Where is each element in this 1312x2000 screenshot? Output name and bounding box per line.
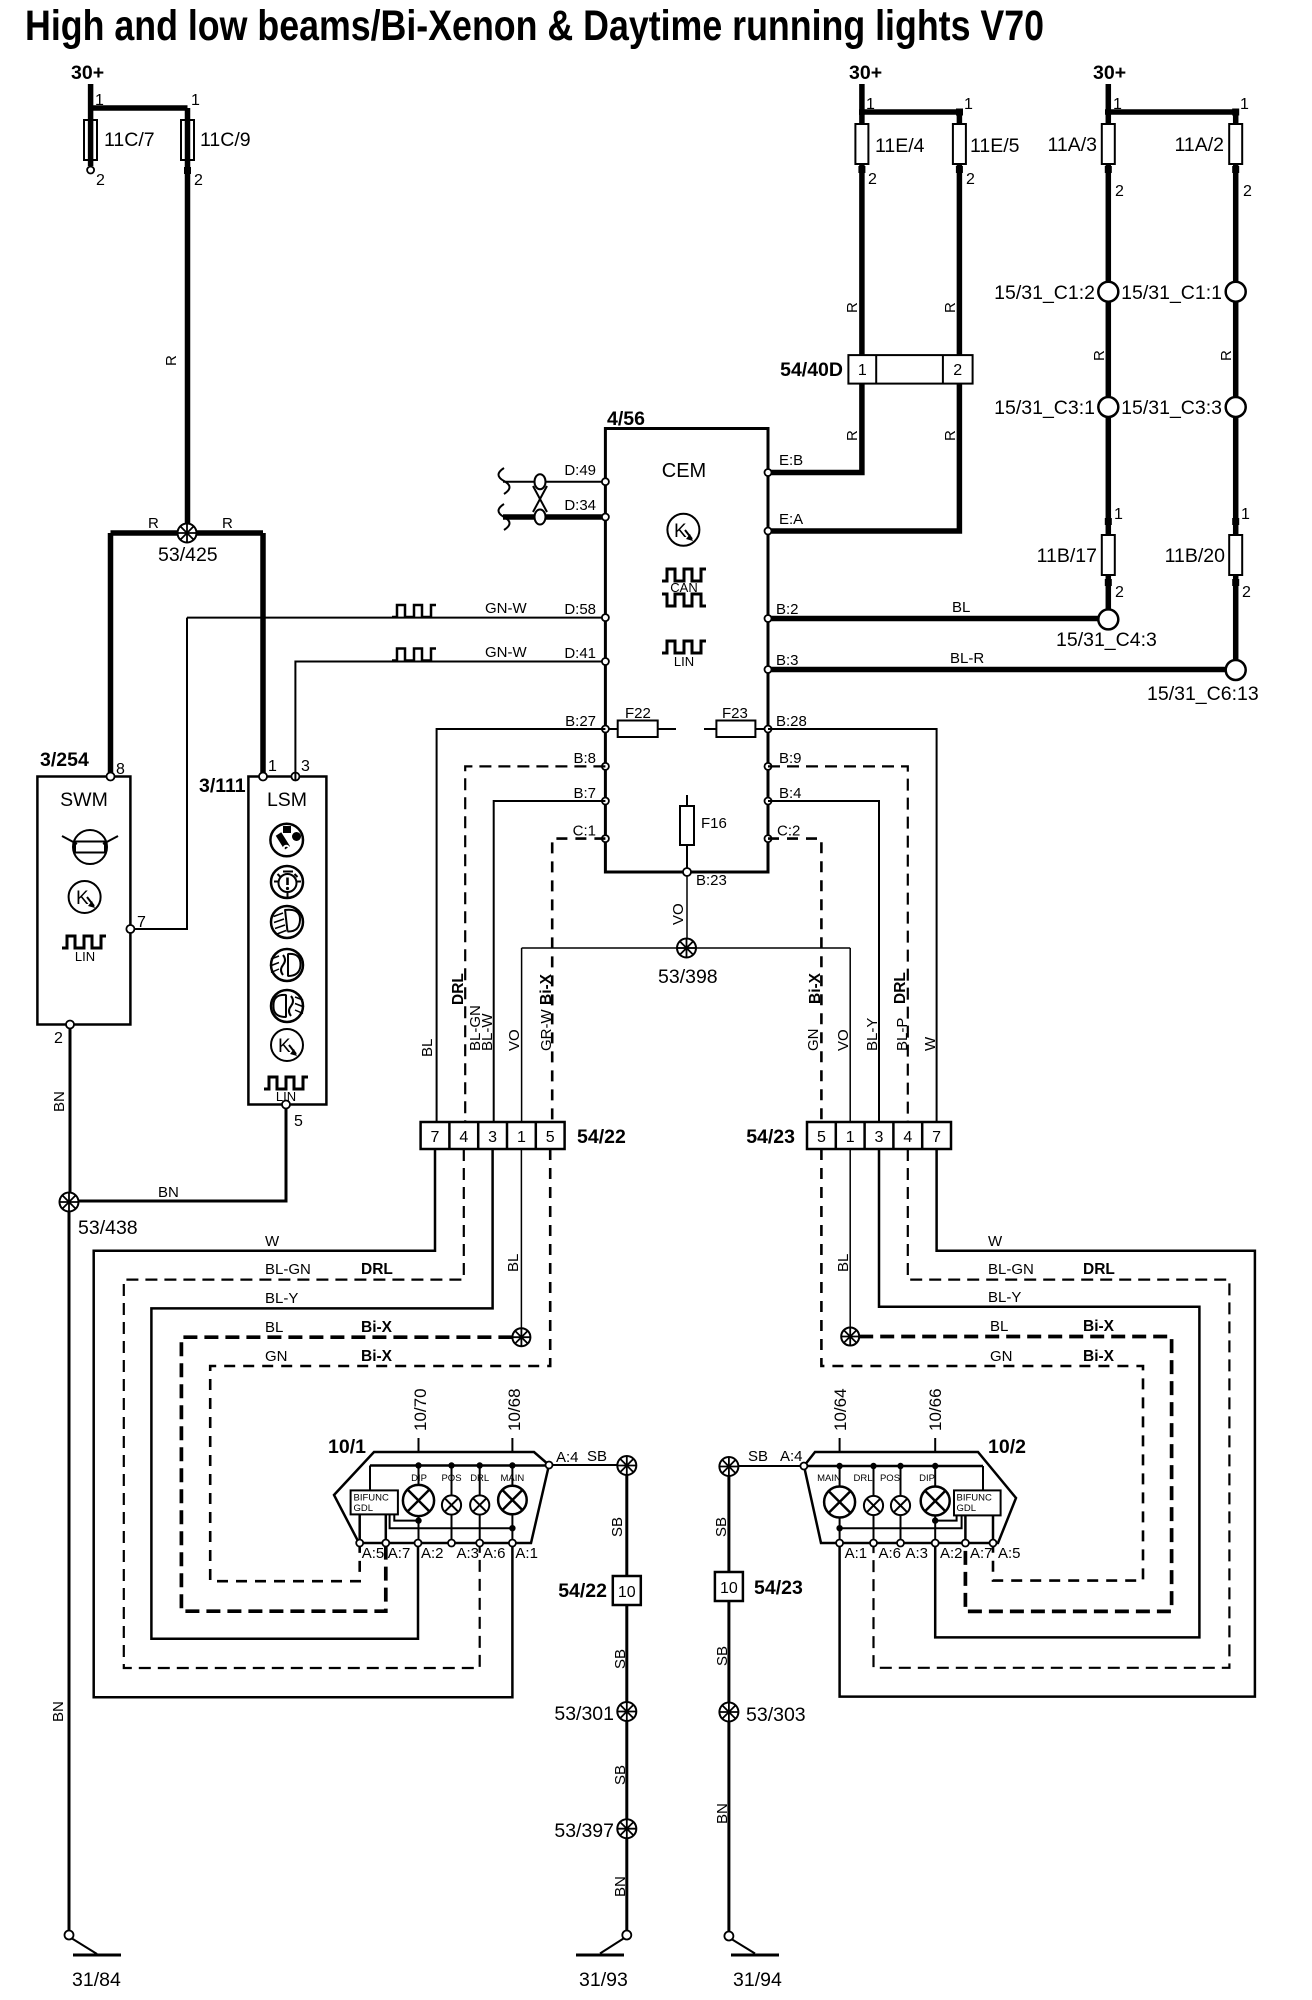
svg-text:A:4: A:4 — [780, 1448, 803, 1465]
svg-text:11C/9: 11C/9 — [200, 129, 251, 151]
svg-text:VO: VO — [835, 1029, 852, 1051]
svg-text:4: 4 — [903, 1129, 912, 1146]
svg-text:MAIN: MAIN — [501, 1473, 525, 1484]
svg-text:2: 2 — [54, 1030, 63, 1047]
svg-text:GDL: GDL — [957, 1503, 977, 1514]
svg-text:A:2: A:2 — [940, 1545, 963, 1562]
svg-text:R: R — [222, 515, 233, 532]
svg-text:BL-Y: BL-Y — [988, 1289, 1021, 1306]
svg-text:10/1: 10/1 — [328, 1436, 366, 1458]
svg-text:10: 10 — [720, 1580, 738, 1597]
svg-text:1: 1 — [1114, 506, 1123, 523]
svg-text:30+: 30+ — [71, 62, 104, 84]
svg-text:BIFUNC: BIFUNC — [957, 1493, 993, 1504]
wire R below C1:2 — [1106, 302, 1112, 397]
junction on right Bi-X wire — [841, 1328, 859, 1346]
svg-text:BL: BL — [265, 1319, 283, 1336]
svg-text:D:58: D:58 — [564, 601, 596, 618]
junction 53/301 — [617, 1702, 636, 1721]
bifunction gas discharge lamp module in 10/1 — [351, 1490, 398, 1514]
wire BN to ground 31/93 — [625, 1838, 628, 1931]
fuse 11B/17 — [1102, 535, 1115, 575]
wire BL from CEM B:2 to connector C4:3 — [772, 616, 1099, 622]
fuse F23 in CEM — [704, 705, 768, 737]
pins A:1 A:6 A:3 A:2 A:7 A:5 of 10/2 — [836, 1540, 996, 1547]
wire BL from 54/23 pin1 down to Bi-X junction — [849, 1149, 851, 1328]
internal bus of 10/2 — [807, 1465, 983, 1468]
ground 31/94 — [724, 1932, 779, 1956]
wire BL-Y from B:4 to 54/23 pin3 — [768, 801, 879, 1122]
svg-text:Bi-X: Bi-X — [361, 1348, 393, 1365]
connector 54/23 — [807, 1122, 951, 1149]
wire VO down to 54/22 pin1 — [521, 948, 523, 1122]
wire VO down to 54/23 pin1 — [849, 948, 851, 1122]
wire BL Bi-X heavy loop right to A:7 — [859, 1337, 1171, 1612]
svg-text:2: 2 — [1115, 183, 1124, 200]
svg-text:2: 2 — [953, 362, 962, 379]
wire BL-P (DRL) from B:9 to 54/23 pin4 — [768, 766, 908, 1122]
fuse 11C/7 — [84, 120, 97, 160]
junction SB right (near A:4 of 10/2) — [719, 1457, 738, 1476]
fuse 11A/2 — [1229, 124, 1242, 164]
wire GN Bi-X loop right: 54/23 pin5 to A:5 — [821, 1149, 1143, 1581]
svg-text:3/111: 3/111 — [199, 775, 246, 797]
svg-text:3: 3 — [301, 758, 310, 775]
svg-text:DIP: DIP — [919, 1473, 935, 1484]
svg-text:R: R — [1091, 350, 1108, 361]
wire GR-W (Bi-X) from C:1 to 54/22 pin5 — [552, 839, 605, 1122]
svg-text:1: 1 — [95, 92, 104, 109]
svg-text:30+: 30+ — [849, 62, 882, 84]
pin 1 of LSM — [259, 773, 267, 781]
svg-text:GN: GN — [805, 1029, 822, 1052]
svg-text:A:2: A:2 — [421, 1545, 444, 1562]
fuse 11C/9 — [181, 120, 194, 160]
pin 2 label 11A/2 — [1232, 166, 1239, 173]
svg-text:BL-GN: BL-GN — [988, 1261, 1034, 1278]
pin 2 of 11C/9 — [184, 167, 191, 174]
svg-text:A:1: A:1 — [845, 1545, 868, 1562]
wire BL Bi-X heavy loop left to A:7 — [181, 1337, 512, 1611]
svg-text:GDL: GDL — [354, 1503, 374, 1514]
svg-text:11A/2: 11A/2 — [1174, 134, 1224, 156]
pin A:4 of 10/1 — [546, 1462, 553, 1469]
wire 30+ stub right — [1106, 84, 1112, 115]
wire SWM pin2 down to junction 53/438 — [69, 1029, 72, 1198]
svg-text:A:6: A:6 — [879, 1545, 902, 1562]
svg-text:BL: BL — [990, 1318, 1008, 1335]
svg-text:BL-GN: BL-GN — [265, 1261, 311, 1278]
wire BN from 53/438 down to ground 31/84 — [68, 1212, 71, 1932]
svg-text:B:2: B:2 — [776, 601, 799, 618]
svg-text:BL: BL — [419, 1039, 436, 1057]
svg-text:POS: POS — [880, 1473, 900, 1484]
svg-text:BL: BL — [952, 599, 970, 616]
svg-text:1: 1 — [964, 96, 973, 113]
svg-text:BL-Y: BL-Y — [265, 1290, 298, 1307]
bulb MAIN in 10/1 — [498, 1466, 527, 1544]
junction SB left (near A:4 of 10/1) — [617, 1456, 636, 1475]
connector 54/40D — [848, 355, 972, 384]
wire BIFUNC GDL to pin A:5 — [992, 1515, 995, 1543]
svg-text:A:5: A:5 — [362, 1545, 385, 1562]
wire link GDL to DIP — [935, 1515, 956, 1520]
svg-text:7: 7 — [431, 1129, 440, 1146]
svg-text:2: 2 — [868, 171, 877, 188]
svg-text:MAIN: MAIN — [817, 1473, 841, 1484]
wire SWM pin7 to CEM D:58 riser — [134, 618, 187, 929]
CAN squarewave symbol in CEM — [662, 569, 706, 606]
bulb DIP in 10/1 — [403, 1466, 434, 1544]
connector 15/31_C6:13 — [1226, 660, 1246, 680]
svg-text:10/70: 10/70 — [411, 1388, 430, 1431]
fuse 11E/4 — [855, 124, 868, 164]
icon front fog light in LSM — [270, 949, 303, 981]
svg-text:DRL: DRL — [450, 973, 467, 1005]
svg-text:31/84: 31/84 — [72, 1969, 121, 1991]
wire BIFUNC GDL to pin A:7 — [385, 1514, 388, 1543]
wire BL-GN (DRL) from B:8 to 54/22 pin4 — [465, 766, 605, 1122]
connector 15/31_C3:1 — [1098, 397, 1118, 417]
svg-text:BIFUNC: BIFUNC — [354, 1493, 390, 1504]
junction 53/397 — [617, 1819, 636, 1838]
pin 2 label 11E/4 — [858, 166, 865, 173]
svg-text:F22: F22 — [625, 705, 651, 722]
svg-text:R: R — [163, 355, 180, 366]
svg-text:B:23: B:23 — [696, 872, 727, 889]
svg-text:D:34: D:34 — [564, 497, 596, 514]
svg-text:10/2: 10/2 — [988, 1436, 1026, 1458]
svg-text:A:6: A:6 — [483, 1545, 506, 1562]
wire link GDL to DIP — [394, 1514, 418, 1520]
svg-text:10: 10 — [618, 1584, 636, 1601]
svg-text:15/31_C3:3: 15/31_C3:3 — [1121, 397, 1222, 419]
wire BL-Y loop right: 54/23 pin3 to A:2 — [879, 1149, 1199, 1637]
svg-text:DIP: DIP — [411, 1473, 427, 1484]
svg-text:E:B: E:B — [779, 452, 803, 469]
svg-text:53/303: 53/303 — [746, 1704, 806, 1726]
svg-text:15/31_C4:3: 15/31_C4:3 — [1056, 629, 1157, 651]
connector 54/23 pin 10 — [715, 1572, 743, 1601]
svg-text:B:28: B:28 — [776, 713, 807, 730]
pin 2 of 11B/20 — [1233, 575, 1239, 660]
svg-text:R: R — [942, 430, 959, 441]
svg-text:2: 2 — [96, 172, 105, 189]
svg-text:Bi-X: Bi-X — [361, 1319, 393, 1336]
internal bus of 10/1 — [370, 1464, 546, 1467]
svg-text:10/66: 10/66 — [926, 1388, 945, 1431]
svg-text:DRL: DRL — [1083, 1261, 1115, 1278]
svg-text:5: 5 — [817, 1129, 826, 1146]
wire VO horizontal from 53/398 — [522, 947, 851, 949]
wire bus pin1 to pin1 of 11C/9 — [88, 105, 188, 111]
svg-text:SB: SB — [714, 1646, 731, 1666]
svg-text:5: 5 — [546, 1129, 555, 1146]
svg-text:1: 1 — [191, 92, 200, 109]
fuse 11B/20 — [1229, 535, 1242, 575]
LIN squarewave symbol in CEM — [662, 641, 706, 653]
svg-text:SB: SB — [748, 1448, 768, 1465]
svg-text:B:8: B:8 — [573, 750, 596, 767]
svg-text:Bi-X: Bi-X — [1083, 1348, 1115, 1365]
wire link GDL to MAIN — [840, 1515, 962, 1528]
svg-text:15/31_C1:2: 15/31_C1:2 — [994, 282, 1095, 304]
svg-text:1: 1 — [517, 1129, 526, 1146]
bifunction gas discharge lamp module in 10/2 — [954, 1490, 1001, 1515]
svg-text:7: 7 — [932, 1129, 941, 1146]
pin 2 of SWM — [66, 1021, 74, 1029]
pin 8 of SWM — [107, 773, 115, 781]
svg-text:A:3: A:3 — [906, 1545, 929, 1562]
svg-text:BL-W: BL-W — [479, 1013, 496, 1051]
svg-text:LIN: LIN — [75, 949, 95, 964]
fuse F16 in CEM — [680, 795, 727, 872]
icon low beam in LSM — [271, 906, 303, 938]
wire SB below 54/23 pin10 — [727, 1601, 730, 1703]
wire GN Bi-X loop left: 54/22 pin5 to A:5 — [210, 1149, 550, 1581]
icon rotary light switch in LSM — [270, 824, 303, 857]
wire-break squiggle at D:34 — [499, 504, 510, 530]
junction 53/398 — [677, 939, 696, 958]
svg-text:31/94: 31/94 — [733, 1969, 782, 1991]
tick bulb 10/68 — [511, 1438, 513, 1452]
pin 3 of LSM — [291, 773, 299, 781]
wire down to fuse 11B/20 — [1233, 417, 1239, 535]
svg-text:SB: SB — [612, 1765, 629, 1785]
svg-text:BL-P: BL-P — [894, 1018, 911, 1051]
wire BL-GN DRL loop right: 54/23 pin4 to A:6 — [874, 1149, 1230, 1668]
icon rear fog light in LSM — [271, 990, 304, 1022]
wire link GDL to MAIN — [390, 1514, 513, 1528]
svg-text:A:3: A:3 — [457, 1545, 480, 1562]
svg-text:BL-Y: BL-Y — [864, 1018, 881, 1051]
svg-text:W: W — [988, 1233, 1003, 1250]
wire W from B:28 to 54/23 pin7 — [768, 729, 937, 1122]
svg-text:C:1: C:1 — [573, 823, 596, 840]
svg-text:GN-W: GN-W — [485, 644, 527, 661]
terminal pin 2 of 11C/7 (open circle) — [87, 167, 94, 174]
svg-text:2: 2 — [966, 171, 975, 188]
connector 54/22 pin 10 — [613, 1576, 641, 1605]
wire junction branch left (R) — [111, 530, 264, 536]
wire BL from B:27 to 54/22 pin7 — [437, 729, 606, 1122]
wire R from 11C/9 down to junction 53/425 — [185, 108, 191, 530]
wire-break squiggle at D:49 — [499, 468, 510, 494]
svg-text:15/31_C1:1: 15/31_C1:1 — [1121, 282, 1222, 304]
svg-text:R: R — [942, 302, 959, 313]
svg-text:W: W — [922, 1036, 939, 1051]
svg-text:2: 2 — [1243, 183, 1252, 200]
svg-text:Bi-X: Bi-X — [538, 973, 555, 1005]
ground 31/84 — [65, 1931, 122, 1956]
wire SB between 53/301 and 53/397 — [625, 1721, 628, 1819]
wire 30+ stub down to fuse 11C/7 — [88, 84, 94, 166]
svg-text:11E/5: 11E/5 — [970, 135, 1020, 157]
svg-text:1: 1 — [846, 1129, 855, 1146]
junction 53/438 — [60, 1193, 79, 1212]
svg-text:W: W — [265, 1233, 280, 1250]
svg-text:DRL: DRL — [361, 1261, 393, 1278]
svg-text:B:4: B:4 — [779, 785, 802, 802]
wire R below C1:1 — [1233, 302, 1239, 397]
svg-text:30+: 30+ — [1093, 62, 1126, 84]
svg-text:D:41: D:41 — [564, 645, 596, 662]
svg-text:SB: SB — [587, 1448, 607, 1465]
svg-text:SB: SB — [713, 1517, 730, 1537]
pin A:4 of 10/2 — [800, 1463, 807, 1470]
svg-text:2: 2 — [1242, 584, 1251, 601]
svg-text:LIN: LIN — [674, 654, 694, 669]
wire W loop left: 54/22 pin7 to lamp 10/1 A:1 — [94, 1149, 513, 1697]
twist symbol — [533, 474, 547, 524]
LIN squarewave symbol in SWM — [62, 936, 106, 948]
fuse 11A/3 — [1102, 124, 1115, 164]
svg-text:E:A: E:A — [779, 511, 803, 528]
svg-text:53/438: 53/438 — [78, 1217, 138, 1239]
wire R down to SWM pin 8 — [108, 533, 114, 774]
svg-text:GN: GN — [265, 1348, 288, 1365]
wire R 11A/2 down to connector C1:1 — [1233, 112, 1239, 281]
svg-text:10/64: 10/64 — [831, 1388, 850, 1431]
wire BN to ground 31/94 — [727, 1722, 730, 1933]
svg-text:A:1: A:1 — [515, 1545, 538, 1562]
wire SB from A:4 to junction — [553, 1464, 619, 1466]
svg-text:11A/3: 11A/3 — [1047, 134, 1097, 156]
svg-text:B:27: B:27 — [565, 713, 596, 730]
connector 54/22 — [421, 1122, 565, 1149]
fuse 11E/5 — [953, 124, 966, 164]
junction 53/425 — [178, 524, 197, 543]
wire SB down to 54/22 pin10 — [625, 1475, 628, 1576]
tick bulb 10/64 — [839, 1438, 841, 1452]
pin 2 label 11A/3 — [1105, 166, 1112, 173]
svg-text:C:2: C:2 — [777, 823, 800, 840]
wire BL-W from B:7 to 54/22 pin3 — [494, 801, 606, 1122]
svg-text:4: 4 — [459, 1129, 468, 1146]
svg-text:1: 1 — [268, 758, 277, 775]
svg-text:R: R — [844, 430, 861, 441]
svg-text:B:3: B:3 — [776, 652, 799, 669]
svg-text:DRL: DRL — [853, 1473, 872, 1484]
tick bulb 10/70 — [418, 1438, 420, 1452]
svg-text:R: R — [1218, 350, 1235, 361]
connector 15/31_C3:3 — [1226, 397, 1246, 417]
pin 2 of 11B/17 — [1106, 575, 1112, 609]
svg-text:VO: VO — [506, 1029, 523, 1051]
svg-text:BN: BN — [158, 1184, 179, 1201]
bulb MAIN in 10/2 — [817, 1466, 855, 1543]
icon transistor K in LSM — [271, 1029, 303, 1061]
wire BL-GN DRL loop left: 54/22 pin4 to A:6 — [124, 1149, 480, 1668]
svg-text:2: 2 — [194, 172, 203, 189]
svg-text:BL: BL — [505, 1254, 522, 1272]
icon transistor K in CEM — [667, 514, 699, 546]
svg-text:DRL: DRL — [892, 972, 909, 1004]
wire BL-Y loop left: 54/22 pin3 to A:2 — [151, 1149, 492, 1639]
connector 15/31_C1:2 — [1098, 282, 1118, 302]
wire R through 11E/4 down to E:B — [772, 112, 862, 473]
svg-text:Bi-X: Bi-X — [1083, 1318, 1115, 1335]
svg-text:R: R — [148, 515, 159, 532]
squarewave symbol on D:41 wire — [392, 649, 436, 661]
svg-text:GN-W: GN-W — [485, 600, 527, 617]
svg-text:11E/4: 11E/4 — [875, 135, 925, 157]
squarewave symbol on D:58 wire — [392, 605, 436, 617]
svg-text:54/22: 54/22 — [577, 1126, 626, 1148]
wire GN-W to D:58 — [187, 617, 602, 619]
connector 15/31_C1:1 — [1226, 282, 1246, 302]
pin B:23 of CEM — [683, 868, 691, 876]
svg-text:11B/20: 11B/20 — [1165, 545, 1226, 567]
svg-text:F16: F16 — [701, 815, 727, 832]
svg-text:1: 1 — [858, 362, 867, 379]
icon transistor K in SWM — [69, 881, 101, 913]
wire GN-W from LSM pin3 to D:41 — [295, 662, 602, 781]
svg-text:A:5: A:5 — [998, 1545, 1021, 1562]
wire SB below 54/22 pin10 — [625, 1605, 628, 1702]
wire W loop right: 54/23 pin7 to lamp 10/2 A:1 — [840, 1149, 1255, 1697]
wire R through 11E/5 down to E:A — [772, 112, 960, 531]
wire twisted pair D:34 — [503, 514, 602, 520]
pin 7 of SWM — [126, 925, 134, 933]
wire bus to 11E/5 — [859, 109, 959, 115]
svg-text:VO: VO — [670, 903, 687, 925]
svg-text:10/68: 10/68 — [505, 1388, 524, 1431]
fuse F22 in CEM — [605, 705, 676, 737]
svg-text:31/93: 31/93 — [579, 1969, 628, 1991]
svg-text:3: 3 — [875, 1129, 884, 1146]
svg-text:53/425: 53/425 — [158, 544, 218, 566]
svg-text:5: 5 — [294, 1113, 303, 1130]
tick bulb 10/66 — [934, 1438, 936, 1452]
svg-text:A:4: A:4 — [556, 1449, 579, 1466]
svg-text:54/23: 54/23 — [746, 1126, 795, 1148]
svg-text:53/398: 53/398 — [658, 966, 718, 988]
svg-text:8: 8 — [116, 761, 125, 778]
bulb DIP in 10/2 — [919, 1466, 950, 1543]
LIN squarewave symbol in LSM — [264, 1077, 308, 1089]
svg-text:GN: GN — [990, 1348, 1013, 1365]
wire 30+ stub — [859, 84, 865, 115]
svg-text:BN: BN — [50, 1701, 67, 1722]
wire BL from 54/22 pin1 down to Bi-X junction — [520, 1149, 522, 1329]
svg-text:1: 1 — [1241, 506, 1250, 523]
wire twisted pair D:49 — [503, 481, 602, 483]
svg-text:54/40D: 54/40D — [780, 359, 843, 381]
svg-text:54/23: 54/23 — [754, 1577, 803, 1599]
CEM left pins — [602, 478, 609, 485]
svg-text:3/254: 3/254 — [40, 749, 89, 771]
wire SB from junction to A:4 of 10/2 — [738, 1465, 800, 1467]
pin 5 of LSM — [282, 1101, 290, 1109]
svg-text:SB: SB — [612, 1649, 629, 1669]
junction 53/303 — [719, 1703, 738, 1722]
wire BN from LSM pin5 down and left to junction 53/438 — [72, 1109, 286, 1202]
wire R down to LSM pin 1 — [260, 533, 266, 774]
svg-text:1: 1 — [1113, 96, 1122, 113]
svg-text:54/22: 54/22 — [558, 1580, 607, 1602]
svg-text:DRL: DRL — [470, 1473, 489, 1484]
bulb DRL in 10/1 — [470, 1466, 489, 1544]
wire bus to 11A/2 — [1105, 109, 1236, 115]
svg-text:A:7: A:7 — [970, 1545, 993, 1562]
connector 15/31_C4:3 — [1098, 609, 1118, 629]
wire BIFUNC GDL to pin A:7 — [964, 1515, 967, 1543]
svg-text:15/31_C6:13: 15/31_C6:13 — [1147, 683, 1259, 705]
svg-text:4/56: 4/56 — [607, 408, 645, 430]
svg-text:11C/7: 11C/7 — [104, 129, 155, 151]
svg-text:BN: BN — [714, 1803, 731, 1824]
